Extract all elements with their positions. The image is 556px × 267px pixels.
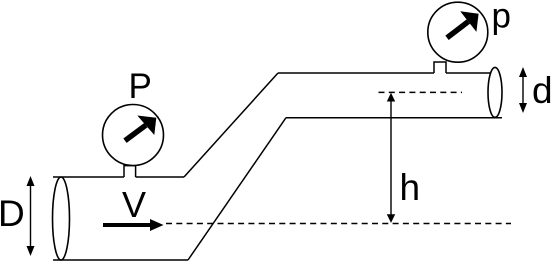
gauge p stem xyxy=(434,62,446,73)
gauge P stem xyxy=(124,166,136,177)
dimension arrow h xyxy=(387,93,395,223)
svg-text:h: h xyxy=(400,167,421,208)
label p xyxy=(492,0,511,36)
upper pipe bottom wall wire xyxy=(286,117,502,119)
riser bottom wall wire (diagonal) xyxy=(188,118,286,260)
label d xyxy=(532,70,553,111)
svg-text:d: d xyxy=(532,70,553,111)
upper centerline (dashed) xyxy=(379,91,463,93)
gauge P needle xyxy=(125,116,156,141)
lower pipe inlet ellipse xyxy=(53,177,70,260)
svg-text:p: p xyxy=(492,0,511,36)
label V xyxy=(122,184,146,225)
label P xyxy=(129,67,152,106)
label h xyxy=(400,167,421,208)
upper pipe outlet ellipse xyxy=(488,67,502,117)
gauge p needle xyxy=(447,11,479,38)
gauge p body xyxy=(428,2,488,62)
svg-text:P: P xyxy=(129,67,152,106)
dimension arrow D xyxy=(27,176,35,256)
upper pipe top wall wire xyxy=(278,72,490,74)
lower pipe bottom wall wire xyxy=(53,259,188,261)
svg-text:V: V xyxy=(122,184,146,225)
svg-text:D: D xyxy=(0,193,25,234)
label D xyxy=(0,193,25,234)
lower centerline (dashed) xyxy=(166,223,511,225)
gauge P body xyxy=(103,105,164,166)
dimension arrow d xyxy=(519,67,527,113)
lower pipe top wall wire xyxy=(53,176,184,178)
riser top wall wire (diagonal) xyxy=(184,73,278,177)
velocity arrow V xyxy=(103,219,164,231)
